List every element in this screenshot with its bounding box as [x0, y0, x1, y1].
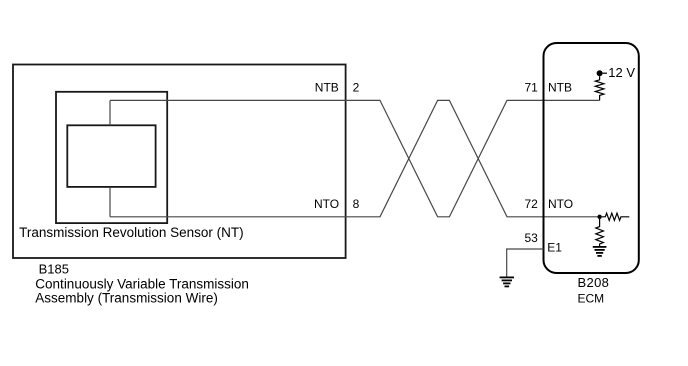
svg-text:B208: B208 — [578, 275, 610, 290]
svg-text:E1: E1 — [547, 241, 562, 255]
svg-text:2: 2 — [353, 81, 360, 95]
svg-text:NTB: NTB — [315, 81, 339, 95]
wire sensor bottom lead to NTO — [109, 187, 111, 217]
wire net NTB (pin 2 to pin 71, twisted pair upper) — [110, 100, 600, 216]
svg-text:53: 53 — [525, 231, 539, 245]
svg-text:B185: B185 — [39, 261, 69, 276]
svg-text:8: 8 — [353, 197, 360, 211]
ground E1 — [500, 277, 514, 286]
connector B185 outer box — [13, 65, 346, 259]
wire sensor top lead to NTB — [109, 100, 111, 125]
svg-text:Continuously Variable Transmis: Continuously Variable Transmission — [35, 277, 249, 292]
tick from 12 V dot to label — [603, 72, 607, 74]
svg-text:71: 71 — [525, 81, 539, 95]
resistor pull-up to 12 V — [595, 76, 604, 100]
svg-text:NTB: NTB — [548, 81, 572, 95]
svg-text:Assembly (Transmission Wire): Assembly (Transmission Wire) — [35, 291, 218, 306]
resistor NTO to ground — [596, 219, 604, 246]
wire net NTO (pin 8 to pin 72, twisted pair lower) — [110, 100, 600, 216]
svg-text:NTO: NTO — [548, 197, 573, 211]
svg-text:Transmission Revolution Sensor: Transmission Revolution Sensor (NT) — [19, 225, 244, 240]
svg-text:ECM: ECM — [578, 291, 605, 305]
node 12 V supply dot — [597, 70, 603, 76]
svg-text:12 V: 12 V — [608, 65, 635, 80]
svg-text:72: 72 — [525, 197, 539, 211]
junction node on NTO — [597, 215, 601, 219]
sensor element rectangle — [67, 125, 155, 187]
ground (ECM internal) — [593, 247, 607, 256]
wire net E1 (pin 53 to ground) — [507, 249, 544, 277]
ECM B208 box — [544, 43, 639, 273]
resistor horizontal on NTO — [602, 213, 630, 220]
svg-text:NTO: NTO — [314, 197, 339, 211]
Transmission Revolution Sensor (NT) box — [56, 92, 167, 223]
